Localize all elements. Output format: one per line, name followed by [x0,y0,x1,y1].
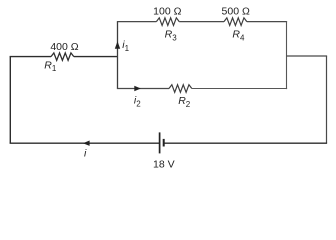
svg-text:500 Ω: 500 Ω [222,5,250,17]
wire: top branch middle segment [179,21,224,23]
battery V1 long plate [159,132,161,153]
wire: bottom horizontal left of battery [10,142,160,144]
resistor R1 (zigzag) [51,53,74,60]
resistor R4 (zigzag) [224,18,247,26]
svg-text:R4: R4 [232,29,245,43]
wire: top branch right segment [247,21,287,23]
battery V1 short plate [163,139,165,147]
arrow: current i1 (upward) [115,41,120,49]
wire: bottom horizontal right of battery [164,142,327,144]
wire: node A vertical (left side of parallel section) [117,22,119,89]
wire: top branch left segment [117,21,156,23]
svg-text:18 V: 18 V [153,158,175,170]
wire: bottom branch right segment [192,88,287,90]
svg-text:400 Ω: 400 Ω [50,41,78,53]
svg-text:i1: i1 [122,39,129,53]
arrow: current i2 (rightward) [134,86,141,91]
svg-text:100 Ω: 100 Ω [153,5,181,17]
wire: top-left horizontal into R1 [10,56,51,58]
svg-text:R1: R1 [44,59,57,73]
wire: R1 to node A [74,56,118,58]
wire: bottom branch left segment [117,88,169,90]
svg-text:i2: i2 [134,95,141,109]
svg-text:i: i [84,148,87,160]
svg-text:R2: R2 [178,95,191,109]
resistor R3 (zigzag) [156,18,179,26]
svg-text:R3: R3 [165,29,178,43]
wire: node B to outer right edge [287,55,328,57]
wire: right vertical side [326,56,328,143]
arrow: current i (leftward) [83,141,90,146]
resistor R2 (zigzag) [169,85,192,93]
wire: left vertical side [9,57,11,144]
wire: node B vertical (right side of parallel section) [286,21,288,89]
